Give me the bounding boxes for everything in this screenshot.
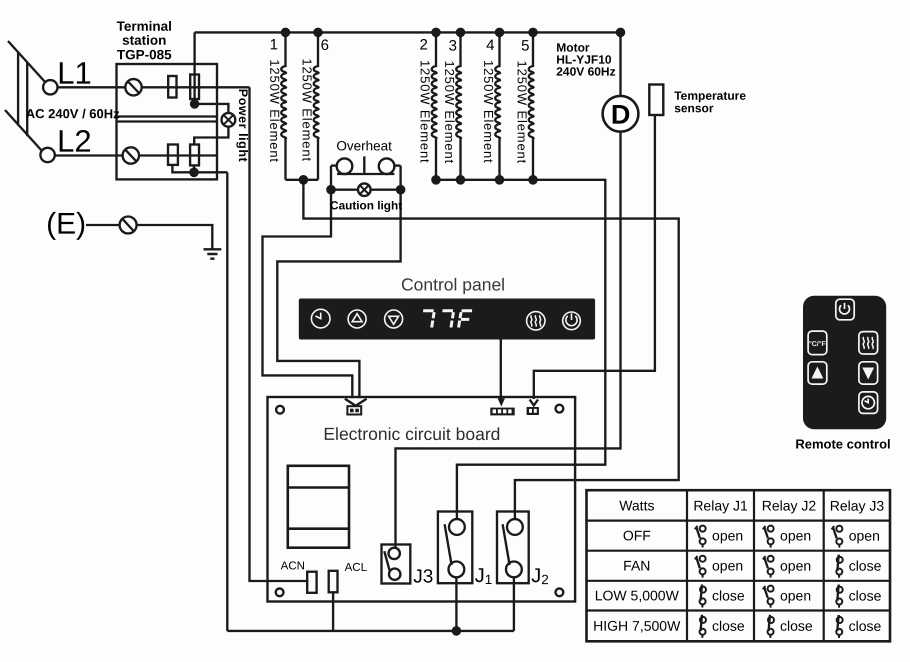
svg-text:L2: L2 [57, 124, 92, 159]
svg-text:LOW 5,000W: LOW 5,000W [595, 587, 680, 603]
wire overheat left side down to connector 1 [263, 166, 353, 399]
svg-text:5: 5 [521, 38, 529, 55]
wire top supply bus [195, 31, 621, 33]
svg-text:L1: L1 [57, 56, 92, 91]
wire bus feed vertical [193, 32, 195, 104]
board hole bottom-left [276, 588, 284, 596]
icon down on panel [385, 310, 403, 328]
svg-text:°C/°F: °C/°F [809, 340, 827, 348]
svg-text:Electronic circuit board: Electronic circuit board [323, 424, 500, 444]
svg-text:Caution light: Caution light [330, 198, 402, 212]
fuse F3 (bottom small) [168, 145, 178, 165]
wire: cable sheath line 2 [26, 62, 28, 136]
heating element 2 [432, 32, 437, 179]
wire elements 1+6 join [286, 179, 319, 181]
wire N bottom bus [227, 630, 514, 632]
connector 1 on board [347, 406, 361, 414]
node: element 5 top [528, 28, 538, 38]
overheat switch right stub [394, 164, 400, 166]
svg-text:open: open [849, 528, 880, 544]
node L2 terminal circle [40, 148, 54, 162]
svg-text:1250W Element: 1250W Element [300, 58, 315, 162]
board hole bottom-right [556, 588, 564, 596]
electronic circuit board outline [268, 397, 576, 602]
wire caution light row [331, 189, 401, 191]
svg-text:Watts: Watts [619, 497, 654, 513]
wire elements 1+6 to relay J2 [303, 180, 678, 519]
overheat contact circle right [379, 158, 395, 174]
wire L1 fused line through box to vertical L drop [142, 86, 250, 88]
svg-text:Overheat: Overheat [336, 138, 392, 153]
screw terminal L2 [123, 147, 139, 163]
svg-text:close: close [712, 587, 745, 603]
wire fuse bottom stubs to node [172, 165, 194, 172]
relay J3 contact bottom [389, 569, 400, 580]
node: J1 bottom bus junction [452, 626, 462, 636]
svg-text:close: close [780, 618, 813, 634]
node: bus end motor [616, 28, 626, 38]
fuse F4 (bottom tall) [190, 145, 199, 166]
wire power light bottom return [194, 127, 228, 145]
svg-text:TGP-085: TGP-085 [117, 47, 172, 62]
cell OFF J2 open [763, 526, 774, 548]
connector 2 on board [490, 408, 514, 416]
node: element 5 bottom [528, 175, 538, 185]
node: elements 1+6 join [299, 175, 309, 185]
heating element 5 [529, 32, 534, 179]
arrow wide into connector 1 [345, 399, 367, 406]
relay J2 box [497, 512, 529, 584]
relay J2 blade [503, 524, 510, 565]
node L1 terminal circle [43, 80, 57, 94]
wire overheat right side down to connector 1 [277, 166, 400, 399]
fuse F1 (top small) [168, 76, 176, 98]
cell HIGH J1 close [700, 615, 706, 638]
terminal station divider double line [117, 117, 218, 122]
node: overheat left [326, 185, 336, 195]
fuse F2 (top tall, on bus feed) [190, 75, 199, 100]
ground symbol [204, 249, 222, 258]
svg-text:240V 60Hz: 240V 60Hz [556, 65, 615, 79]
icon up on panel [348, 310, 366, 328]
node: element 1 top [281, 28, 291, 38]
svg-text:open: open [780, 558, 811, 574]
arrow into connector 3 [530, 400, 538, 406]
connector 3 on board [527, 407, 539, 415]
wire N main vertical run [226, 172, 228, 631]
svg-text:sensor: sensor [674, 101, 714, 115]
wire elements 2-5 bottom bus to relay J1 [436, 180, 605, 519]
wire: cable sheath line 1 [17, 52, 19, 125]
wire motor drop [619, 32, 621, 96]
svg-text:Control panel: Control panel [401, 274, 505, 294]
svg-text:ACN: ACN [281, 560, 305, 572]
svg-text:3: 3 [449, 37, 457, 54]
relay J3 contact top [389, 548, 400, 559]
remote button power [836, 299, 854, 320]
svg-text:open: open [780, 527, 811, 543]
relay state table [587, 490, 891, 641]
board hole top-left [276, 406, 284, 414]
wire N exit from terminal station [194, 171, 227, 173]
transformer block [288, 466, 349, 548]
screw terminal E [120, 217, 137, 234]
svg-text:Terminal: Terminal [117, 19, 172, 34]
cell LOW J1 close [700, 585, 706, 608]
svg-text:OFF: OFF [623, 527, 651, 543]
svg-text:1250W Element: 1250W Element [442, 60, 457, 164]
wire: supply cable diagonal to L1 [8, 41, 46, 83]
svg-text:D: D [611, 100, 631, 130]
cell HIGH J3 close [836, 615, 842, 638]
labels group 1 [25, 19, 746, 588]
svg-text:1250W Element: 1250W Element [418, 60, 433, 164]
relay J2 contact bottom [506, 562, 522, 578]
svg-text:1250W Element: 1250W Element [515, 61, 530, 165]
wire: supply cable diagonal to L2 [5, 110, 42, 151]
terminal station TGP-085 box [117, 64, 218, 179]
wire L2 to terminal station [55, 154, 123, 156]
control panel black bar [299, 299, 595, 340]
wire motor to relay J3 [396, 132, 621, 548]
svg-text:2: 2 [419, 36, 427, 53]
svg-text:open: open [712, 527, 743, 543]
icon clock on panel [311, 309, 330, 328]
svg-text:AC 240V / 60Hz: AC 240V / 60Hz [26, 106, 120, 121]
wire ACL to N bus [332, 592, 334, 631]
wire L2 fused line through box [139, 154, 217, 156]
node: bus feed dot in terminal station [190, 99, 200, 109]
wire J1 bottom to N bus [455, 577, 457, 631]
svg-text:Relay J1: Relay J1 [693, 497, 748, 513]
power light lamp [222, 113, 236, 127]
heating element 1 [281, 32, 286, 179]
remote button C/F [808, 331, 827, 355]
overheat contact circle left [337, 158, 353, 174]
svg-text:HIGH 7,500W: HIGH 7,500W [593, 618, 681, 634]
remote control body [803, 296, 886, 429]
svg-text:Remote control: Remote control [795, 436, 890, 451]
svg-text:6: 6 [321, 37, 329, 54]
node: element 3 bottom [456, 175, 466, 185]
svg-text:close: close [849, 618, 882, 634]
svg-text:close: close [849, 558, 882, 574]
remote button heat [859, 332, 878, 354]
wire E terminal lead [86, 224, 120, 226]
node: element 2 top [431, 28, 441, 38]
ACL terminal [329, 571, 338, 593]
node: overheat right [396, 185, 406, 195]
relay J3 box [382, 545, 411, 584]
temperature sensor body [649, 85, 663, 116]
svg-text:4: 4 [486, 37, 494, 54]
svg-text:FAN: FAN [623, 557, 650, 573]
svg-text:J3: J3 [413, 566, 433, 587]
relay J3 blade [384, 551, 390, 572]
svg-text:close: close [849, 588, 882, 604]
board hole top-right [556, 405, 564, 413]
svg-text:Relay J3: Relay J3 [830, 498, 885, 514]
cell HIGH J2 close [768, 615, 774, 638]
svg-text:open: open [780, 587, 811, 603]
node: element 6 top [313, 28, 323, 38]
wire temperature sensor to board connector [534, 115, 655, 399]
node: element 3 top [456, 28, 466, 38]
remote button up [808, 362, 827, 384]
node: N exit dot [189, 168, 199, 178]
heating element 3 [456, 32, 461, 179]
cell LOW J3 close [836, 585, 842, 608]
cell FAN J1 open [695, 556, 706, 578]
cell LOW J2 open [763, 586, 774, 608]
display 77F [422, 311, 472, 328]
remote button down [859, 362, 878, 384]
motor D circle [603, 96, 639, 132]
heating element 4 [495, 32, 500, 179]
relay J1 blade [445, 524, 452, 565]
overheat switch left stub [331, 164, 337, 166]
icon heat on panel [527, 312, 545, 330]
svg-text:Relay J2: Relay J2 [762, 498, 817, 514]
node: element 4 top [495, 28, 505, 38]
icon power on panel [563, 312, 581, 330]
caution light lamp [358, 183, 371, 196]
control panel wire to connector 2 [500, 340, 502, 400]
cell OFF J3 open [832, 526, 843, 548]
svg-text:(E): (E) [46, 208, 86, 241]
svg-text:open: open [712, 558, 743, 574]
wire node to power light [195, 104, 229, 113]
cell OFF J1 open [695, 526, 706, 548]
wire L main vertical run to ACN [250, 87, 308, 581]
heating element 6 [314, 32, 319, 179]
arrow into connector 2 [498, 398, 505, 406]
svg-text:ACL: ACL [345, 562, 368, 574]
wire J2 bottom to N bus [513, 577, 515, 631]
cell FAN J2 open [763, 556, 774, 578]
svg-text:Power light: Power light [236, 89, 250, 163]
svg-text:close: close [712, 618, 745, 634]
remote button timer [859, 392, 878, 414]
wire L1 to terminal station [58, 86, 126, 88]
svg-text:1250W Element: 1250W Element [481, 60, 496, 164]
svg-text:1: 1 [270, 36, 278, 53]
node: element 4 bottom [495, 175, 505, 185]
svg-text:station: station [122, 33, 166, 48]
svg-text:1250W Element: 1250W Element [267, 59, 282, 163]
overheat middle tick [363, 156, 365, 174]
wire E to ground [137, 225, 213, 249]
node: element 2 bottom [431, 175, 441, 185]
relay J1 contact top [449, 519, 465, 535]
relay J1 contact bottom [449, 562, 465, 578]
overheat bottom tangent line [337, 173, 394, 175]
relay J2 contact top [507, 519, 523, 535]
cell FAN J3 close [836, 555, 842, 578]
relay J1 box [438, 512, 472, 584]
screw terminal L1 [125, 79, 141, 95]
ACN terminal [307, 572, 316, 593]
